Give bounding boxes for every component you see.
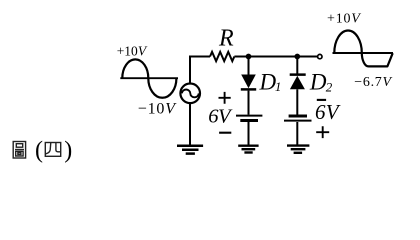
svg-text:R: R bbox=[218, 25, 234, 51]
diode D2 (cathode up) bbox=[290, 76, 305, 90]
battery B2 plus label bbox=[316, 126, 329, 138]
wire: D1 to battery B1 bbox=[248, 91, 250, 115]
input sine waveform axis bbox=[120, 77, 178, 79]
ground (source) bbox=[177, 146, 203, 154]
diode D1 (cathode down) bbox=[241, 75, 256, 89]
svg-text:+10V: +10V bbox=[117, 43, 148, 58]
svg-text:1: 1 bbox=[275, 79, 282, 94]
output terminal (open circle) bbox=[318, 54, 322, 58]
resistor R zigzag bbox=[210, 52, 234, 61]
glyph 四 outer box bbox=[45, 143, 60, 157]
svg-text:D: D bbox=[259, 70, 277, 95]
wire: resistor to node A bbox=[234, 56, 248, 58]
diode D1 lead from node A bbox=[248, 57, 250, 76]
svg-text:(: ( bbox=[35, 137, 43, 163]
ground (battery B1) bbox=[238, 146, 258, 153]
svg-text:6V: 6V bbox=[315, 100, 341, 124]
battery B1 plus label bbox=[219, 92, 231, 104]
battery B1 plus plate (long) bbox=[236, 115, 262, 117]
svg-text:6V: 6V bbox=[208, 106, 233, 128]
battery B1 minus label bbox=[219, 132, 231, 134]
wire: D2 to battery B2 bbox=[296, 89, 298, 115]
svg-text:): ) bbox=[64, 137, 72, 163]
battery B2 minus plate (short thick) bbox=[289, 115, 307, 118]
glyph 圖 outer box bbox=[13, 142, 25, 159]
svg-text:2: 2 bbox=[326, 80, 333, 95]
input sine waveform curve bbox=[122, 59, 176, 97]
svg-text:−6.7V: −6.7V bbox=[354, 75, 392, 90]
glyph 圖 inner bottom center bbox=[18, 153, 21, 155]
output waveform axis bbox=[333, 52, 394, 54]
caption 圖(四) figure four bbox=[13, 142, 25, 159]
AC source inner sine bbox=[182, 90, 199, 98]
battery B2 minus label bbox=[317, 99, 326, 101]
AC source V1 circle bbox=[180, 84, 200, 104]
battery B2 plus plate (long) bbox=[284, 120, 312, 122]
wire: node B to output terminal bbox=[297, 56, 317, 58]
glyph 圖 inner bottom box bbox=[16, 151, 23, 156]
wire: source top to corner to resistor bbox=[190, 57, 210, 84]
svg-text:D: D bbox=[309, 70, 327, 95]
svg-text:−10V: −10V bbox=[138, 101, 177, 118]
node B junction dot bbox=[294, 54, 300, 60]
wire: node A to node B bbox=[249, 56, 298, 58]
diode D2 lead from node B bbox=[296, 57, 298, 75]
glyph 圖 inner middle line bbox=[15, 149, 24, 151]
svg-text:+10V: +10V bbox=[327, 11, 361, 26]
glyph 四 right inner stroke bbox=[56, 143, 61, 152]
battery B1 minus plate (short thick) bbox=[240, 119, 258, 122]
wire: B1 to ground bbox=[248, 122, 250, 145]
glyph 圖 inner top bbox=[16, 144, 22, 148]
output clipped sine curve bbox=[334, 31, 392, 67]
diode D1 cathode bar bbox=[241, 88, 256, 91]
diode D2 cathode bar bbox=[290, 73, 306, 76]
ground (battery B2) bbox=[287, 146, 309, 153]
glyph 四 left inner stroke bbox=[46, 143, 51, 155]
node A junction dot bbox=[246, 54, 252, 60]
wire: source bottom to ground bbox=[189, 104, 191, 145]
wire: B2 to ground bbox=[296, 122, 298, 145]
